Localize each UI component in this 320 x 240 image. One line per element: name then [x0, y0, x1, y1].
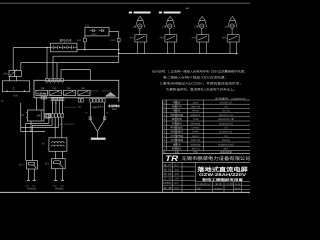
- svg-text:蓄电池: 蓄电池: [173, 142, 181, 146]
- svg-text:FU1: FU1: [77, 39, 82, 42]
- svg-text:DZ47-63: DZ47-63: [191, 139, 201, 142]
- svg-text:DC 2只: DC 2只: [222, 110, 230, 113]
- svg-text:批 准: 批 准: [163, 186, 172, 190]
- svg-text:王成: 王成: [174, 168, 179, 171]
- svg-text:TJ-28: TJ-28: [192, 118, 199, 121]
- svg-text:7AH: 7AH: [13, 95, 18, 98]
- svg-text:规格及数量: 规格及数量: [220, 151, 232, 154]
- svg-text:审 核: 审 核: [163, 172, 172, 176]
- svg-text:WZCK-21 1台: WZCK-21 1台: [219, 114, 234, 117]
- svg-text:2.蓄电池组输出为DC220V，并联向直流母线供电，: 2.蓄电池组输出为DC220V，并联向直流母线供电，: [160, 82, 243, 86]
- svg-text:+KM: +KM: [53, 185, 57, 188]
- svg-text:PK-22: PK-22: [192, 110, 199, 113]
- svg-text:212: 212: [162, 25, 167, 28]
- svg-text:GZW-28AH/220V: GZW-28AH/220V: [199, 172, 246, 177]
- svg-text:JH9-2.5: JH9-2.5: [191, 148, 200, 151]
- svg-text:合闸母线: 合闸母线: [27, 188, 37, 191]
- svg-text:DC220V 1台: DC220V 1台: [220, 131, 234, 134]
- svg-text:陈杰: 陈杰: [174, 182, 179, 185]
- svg-text:阶段标记: 阶段标记: [196, 183, 211, 186]
- svg-text:无锡市鹏桀电力设备有限公司: 无锡市鹏桀电力设备有限公司: [182, 156, 251, 161]
- svg-text:BT: BT: [42, 142, 46, 145]
- svg-text:220V: 220V: [93, 106, 98, 109]
- svg-text:211: 211: [132, 25, 137, 28]
- svg-text:充电模块: 充电模块: [172, 121, 183, 125]
- svg-text:设计说明：1.交流第一路输入在采用市电~220V交流集英格尔: 设计说明：1.交流第一路输入在采用市电~220V交流集英格尔电源；: [152, 69, 247, 73]
- svg-text:-KM: -KM: [60, 185, 64, 188]
- svg-text:AB12: AB12: [92, 33, 98, 36]
- svg-text:第1张: 第1张: [235, 187, 241, 190]
- svg-text:负载所指供电，直流屏在1次送电气开关合上。: 负载所指供电，直流屏在1次送电气开关合上。: [166, 88, 237, 92]
- svg-text:校 对: 校 对: [163, 167, 172, 171]
- svg-text:DJY-02: DJY-02: [192, 127, 200, 130]
- svg-text:LW12-16: LW12-16: [191, 106, 201, 109]
- svg-text:李明: 李明: [174, 173, 179, 176]
- svg-text:设 计: 设 计: [163, 164, 172, 167]
- svg-text:63A 8只: 63A 8只: [222, 139, 231, 142]
- svg-text:直流屏输出: 直流屏输出: [108, 104, 120, 108]
- svg-text:42L6: 42L6: [193, 101, 199, 104]
- svg-text:直流断路器: 直流断路器: [171, 138, 184, 142]
- svg-text:型号: 型号: [193, 151, 198, 154]
- svg-text:电度表: 电度表: [173, 100, 181, 104]
- svg-text:A02: A02: [160, 37, 165, 40]
- svg-text:C: C: [12, 87, 14, 91]
- svg-text:DK: DK: [37, 115, 41, 118]
- svg-text:接线端子: 接线端子: [172, 147, 183, 151]
- svg-text:214: 214: [224, 25, 229, 28]
- svg-text:2V200AH 104只: 2V200AH 104只: [218, 143, 235, 146]
- svg-text:赵刚: 赵刚: [174, 187, 179, 190]
- svg-text:电池巡检仪: 电池巡检仪: [171, 126, 184, 130]
- svg-text:控制母线: 控制母线: [55, 188, 65, 191]
- svg-text:JYM-3: JYM-3: [192, 131, 199, 134]
- svg-text:1SL: 1SL: [52, 87, 57, 90]
- svg-text:BT2: BT2: [45, 162, 50, 165]
- svg-text:A04: A04: [222, 37, 227, 40]
- svg-text:+KM: +KM: [25, 185, 29, 188]
- svg-text:28AH/220V 1套: 28AH/220V 1套: [218, 118, 235, 121]
- svg-text:GZDW: GZDW: [37, 92, 47, 95]
- svg-text:FU1 FU2: FU1 FU2: [91, 90, 100, 93]
- svg-text:YJV-1KV-2x6: YJV-1KV-2x6: [64, 106, 77, 109]
- svg-text:共1张: 共1张: [235, 183, 241, 186]
- svg-text:刘伟: 刘伟: [174, 178, 179, 181]
- svg-text:A03: A03: [192, 37, 197, 40]
- svg-text:-KM: -KM: [32, 185, 36, 188]
- svg-text:BT1: BT1: [19, 164, 24, 167]
- svg-text:标准化: 标准化: [163, 181, 172, 185]
- svg-text:213: 213: [194, 25, 199, 28]
- svg-text:电流表: 电流表: [173, 109, 181, 113]
- svg-text:220V/10A 2只: 220V/10A 2只: [219, 122, 234, 125]
- svg-text:转换开关: 转换开关: [172, 105, 183, 109]
- svg-text:85只: 85只: [224, 148, 230, 151]
- svg-text:微机控制器: 微机控制器: [171, 113, 184, 117]
- svg-text:张力: 张力: [174, 164, 179, 167]
- svg-text:3SL: 3SL: [81, 87, 86, 90]
- svg-text:蓄电池组: 蓄电池组: [60, 38, 72, 42]
- svg-text:GF22010: GF22010: [191, 122, 201, 125]
- svg-text:A01: A01: [130, 37, 135, 40]
- svg-text:GB: GB: [41, 87, 45, 90]
- svg-text:POWER: POWER: [214, 187, 223, 190]
- svg-text:ZR-YJV22-2x10: ZR-YJV22-2x10: [60, 123, 75, 126]
- svg-text:SP2: SP2: [3, 72, 8, 75]
- svg-text:TR: TR: [165, 154, 178, 163]
- svg-text:GZDW-11: GZDW-11: [190, 114, 201, 117]
- svg-text:220V: 220V: [112, 108, 117, 111]
- svg-text:绝缘监察仪: 绝缘监察仪: [171, 130, 184, 134]
- svg-text:AC220V 1只: AC220V 1只: [220, 101, 233, 104]
- svg-text:FU2: FU2: [111, 39, 116, 42]
- svg-text:2SL: 2SL: [67, 87, 72, 90]
- svg-text:工 艺: 工 艺: [163, 177, 172, 181]
- svg-text:降压硅链: 降压硅链: [172, 117, 183, 121]
- svg-text:TA: TA: [1, 100, 4, 103]
- svg-text:SG-11: SG-11: [192, 135, 199, 138]
- svg-text:GFM-200: GFM-200: [191, 143, 201, 146]
- svg-text:第二路输入在经PT稳压-220V交流电源；: 第二路输入在经PT稳压-220V交流电源；: [163, 75, 228, 79]
- svg-text:闪光继电器: 闪光继电器: [171, 134, 184, 138]
